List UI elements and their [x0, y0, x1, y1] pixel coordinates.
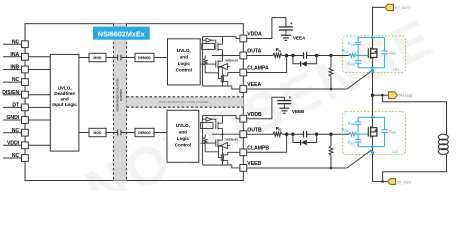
capacitor CDS A	[381, 51, 387, 54]
resistor RG B	[273, 126, 282, 137]
svg-text:UVLO,: UVLO,	[58, 86, 72, 91]
pin NC	[3, 77, 28, 85]
node gate3 A	[315, 54, 318, 57]
wire DT to input logic block	[28, 106, 50, 108]
wire MOD B to barrier cap	[106, 132, 118, 134]
wire RG to gate node A	[282, 55, 304, 57]
wire barrier cap to DEMOD A	[121, 57, 135, 59]
node HS source rail	[371, 66, 374, 69]
svg-text:MOD: MOD	[94, 131, 102, 135]
pin CLAMPB	[240, 146, 270, 156]
wire load return	[383, 153, 447, 181]
svg-text:DT: DT	[12, 103, 20, 109]
transistor NB1 pull-down	[200, 134, 222, 165]
svg-text:VEEB: VEEB	[247, 161, 261, 167]
node LS source rail	[371, 145, 374, 148]
node gate4 B	[329, 133, 332, 136]
wire VDDA rail	[203, 37, 240, 39]
wire input block to MOD B	[79, 132, 89, 134]
svg-text:OUTB: OUTB	[247, 127, 262, 133]
wire DEMOD B to UVLO B	[154, 132, 167, 134]
svg-text:BARRIER: BARRIER	[119, 89, 123, 101]
svg-text:REINFORCED ISOLATION: REINFORCED ISOLATION	[116, 78, 120, 111]
wire CLAMPB to gate node	[247, 134, 287, 152]
svg-text:Control: Control	[175, 143, 191, 148]
wire DEMOD A to UVLO A	[154, 57, 168, 59]
capacitor CGD B	[355, 122, 361, 124]
block DEMOD A	[135, 53, 154, 61]
svg-text:PHASE: PHASE	[398, 93, 412, 98]
fet model box HS	[358, 38, 385, 68]
svg-text:RG,in: RG,in	[342, 128, 350, 133]
pin NC	[3, 153, 28, 161]
transistor PA1 pull-up	[216, 37, 223, 56]
pin NC	[3, 39, 28, 47]
svg-text:GNDI: GNDI	[6, 115, 19, 121]
resistor RGin A	[342, 36, 449, 184]
node gate1 A	[285, 54, 288, 57]
resistor driver A pulldown	[203, 56, 218, 73]
wire INB to input logic block	[28, 69, 50, 71]
svg-text:VEEA+2V: VEEA+2V	[225, 59, 238, 63]
wire VEEB rail	[203, 165, 240, 168]
pin OUTB	[240, 127, 262, 137]
wire input block to MOD A	[79, 57, 89, 59]
pin VDDI	[3, 140, 28, 148]
transistor HS power MOSFET	[368, 47, 377, 60]
transistor NB2 clamp	[221, 152, 228, 165]
barrier capacitor A	[118, 55, 121, 61]
svg-text:and: and	[180, 55, 188, 60]
block U-IN UVLO Deadtime and Input Logic	[50, 54, 79, 151]
block UVLO and Logic Control A	[168, 39, 201, 85]
block MOD A	[89, 53, 106, 61]
wire gate to fet A	[331, 55, 349, 57]
block MOD B	[89, 128, 106, 136]
wire cap to node3 B	[307, 133, 331, 135]
svg-text:RG: RG	[276, 126, 282, 132]
capacitor CDS B	[381, 130, 387, 133]
buffer A1	[203, 38, 216, 43]
pin CLAMPA	[240, 66, 269, 76]
svg-text:INB: INB	[10, 65, 19, 71]
node HS source VEEA	[371, 69, 374, 72]
block UVLO and Logic Control B	[167, 110, 199, 162]
node PHASE	[371, 94, 374, 97]
node load branch	[381, 94, 384, 97]
node load return	[381, 180, 384, 183]
transistor LS power MOSFET	[368, 125, 377, 138]
svg-text:VEEB: VEEB	[292, 109, 305, 114]
terminal BT_BUS+	[385, 4, 411, 10]
svg-text:DEMOD: DEMOD	[138, 56, 151, 60]
module box HS	[342, 36, 405, 73]
inductor load	[438, 134, 448, 154]
IC body outline NSI6602MxEx	[25, 24, 243, 181]
svg-text:RG: RG	[276, 47, 282, 53]
node gate4 A	[329, 54, 332, 57]
wire VDDB rail	[203, 116, 240, 119]
buffer B2 clamp driver	[219, 143, 230, 158]
wire VEEA rail	[203, 86, 240, 89]
transistor PB1 pull-up	[216, 116, 223, 135]
module box LS	[342, 111, 405, 154]
svg-text:RG,in: RG,in	[342, 49, 350, 54]
wire barrier cap to DEMOD B	[121, 132, 135, 134]
svg-text:CLAMPA: CLAMPA	[247, 66, 269, 72]
part name NSI6602MxEx	[93, 27, 150, 40]
wire GNDI to input logic block	[28, 119, 50, 121]
svg-text:Logic: Logic	[177, 136, 190, 141]
wire driver A feed	[202, 37, 204, 86]
wire RG to gate node B	[282, 133, 304, 135]
svg-text:VDDB: VDDB	[247, 112, 262, 118]
diode turnoff B	[293, 134, 317, 145]
pin NC	[3, 128, 28, 136]
node gate2 A	[291, 54, 294, 57]
wire LS source to BT_BUS-	[373, 181, 388, 183]
node driver A out	[221, 54, 223, 56]
transistor NA2 clamp	[221, 73, 228, 87]
svg-text:VEEA: VEEA	[293, 36, 306, 41]
wire VDDI to input logic block	[28, 144, 50, 146]
svg-text:MOD: MOD	[94, 56, 102, 60]
wire OUTA internal	[212, 55, 240, 57]
resistor RG A	[273, 47, 282, 58]
wire VEEA to source	[247, 71, 372, 89]
wire CLAMPA to gate node	[247, 56, 287, 73]
wire phase to terminal	[373, 94, 389, 96]
node HS drain rail	[371, 36, 374, 39]
resistor driver B pulldown	[203, 134, 218, 152]
buffer B1	[203, 117, 216, 122]
svg-text:OUTA: OUTA	[247, 49, 261, 55]
diode turnoff A	[293, 56, 317, 67]
capacitor CA VDDA-VEEA	[279, 21, 293, 36]
svg-text:BT_BUS+: BT_BUS+	[395, 6, 410, 10]
barrier capacitor B	[118, 130, 121, 136]
wire driver B feed	[202, 116, 204, 165]
block DEMOD B	[135, 128, 154, 136]
wire HS source	[372, 60, 374, 95]
interlock channel band	[127, 97, 244, 107]
svg-text:Control: Control	[176, 68, 192, 73]
pin GNDI	[3, 115, 28, 123]
ground VEEA symbol	[281, 35, 306, 40]
wire gate inside A	[356, 55, 368, 57]
svg-text:BT_BUS-: BT_BUS-	[397, 180, 411, 184]
wire HS drain	[372, 38, 374, 47]
capacitor boost A	[304, 52, 307, 59]
node driver B out	[221, 133, 223, 135]
svg-text:UVLO,: UVLO,	[176, 123, 190, 128]
node LS drain rail	[371, 116, 374, 119]
svg-text:HS: HS	[393, 67, 399, 72]
pin VDDB	[240, 112, 262, 122]
wire INA to input logic block	[28, 56, 50, 58]
svg-text:and: and	[179, 130, 187, 135]
wire cap to node3 A	[307, 55, 331, 57]
pin INA	[3, 52, 28, 60]
svg-text:+: +	[290, 21, 293, 26]
capacitor boost B	[304, 131, 307, 138]
svg-text:INA: INA	[10, 52, 19, 58]
wire LS drain	[372, 95, 374, 125]
wire gate loop PA1	[202, 44, 215, 50]
svg-text:NC: NC	[12, 128, 20, 134]
svg-text:UVLO,: UVLO,	[177, 48, 191, 53]
svg-text:Input Logic: Input Logic	[52, 102, 77, 107]
resistor RGS A	[329, 56, 333, 91]
pin INB	[3, 65, 28, 73]
wire OUTB to RG	[247, 133, 273, 135]
transistor NA1 pull-down	[200, 56, 222, 87]
svg-text:Deadtime: Deadtime	[54, 91, 75, 96]
ground VEEB symbol	[279, 108, 305, 114]
wire drain HS to BT_BUS+	[373, 7, 385, 46]
wire gate loop PB1	[200, 123, 213, 129]
svg-text:+: +	[289, 95, 292, 100]
svg-text:CLAMPB: CLAMPB	[247, 146, 269, 152]
node LS source VEEB	[371, 151, 374, 154]
svg-text:VEEA: VEEA	[247, 82, 261, 88]
capacitor CGS A	[355, 61, 361, 63]
wire load branch	[382, 95, 446, 135]
node gate1 B	[285, 133, 288, 136]
wire LS source	[372, 139, 374, 182]
pin VEEB	[240, 161, 262, 171]
svg-text:NC: NC	[12, 39, 20, 45]
node gate3 B	[315, 133, 318, 136]
terminal BT_BUS-	[388, 179, 412, 185]
fet model box LS	[358, 117, 385, 146]
capacitive isolation barrier	[114, 24, 127, 181]
svg-text:Logic: Logic	[178, 61, 191, 66]
pin DIS/EN	[2, 90, 28, 98]
pin DT	[3, 103, 28, 111]
pin VEEA	[240, 82, 262, 92]
terminal PHASE	[389, 92, 413, 99]
wire VDDA to bootstrap cap	[247, 18, 286, 39]
wire OUTA to RG	[247, 55, 273, 57]
pin OUTA	[240, 49, 262, 59]
svg-text:NC: NC	[12, 153, 20, 159]
pin VDDA	[240, 32, 262, 42]
capacitor CB VDDB-VEEB	[277, 95, 291, 108]
wire CLAMPB internal	[228, 151, 240, 153]
capacitor CGS B	[355, 140, 361, 142]
svg-text:PWM FORWARD ISOLATION CHANNEL: PWM FORWARD ISOLATION CHANNEL	[159, 100, 210, 104]
svg-text:NC: NC	[12, 77, 20, 83]
wire VDDB to bootstrap cap	[247, 97, 285, 118]
svg-text:DEMOD: DEMOD	[138, 131, 151, 135]
wire gate to fet B	[331, 133, 349, 135]
svg-text:NSI6602MxEx: NSI6602MxEx	[98, 29, 145, 38]
svg-text:VEEB+2V: VEEB+2V	[225, 138, 238, 142]
buffer A2 clamp driver	[219, 64, 230, 79]
wire VEEB to source	[247, 150, 372, 168]
resistor RGS B	[329, 134, 333, 169]
svg-text:LS: LS	[393, 149, 398, 154]
wire gate inside B	[356, 133, 368, 135]
wire OUTB internal	[212, 133, 240, 135]
node gate2 B	[291, 133, 294, 136]
svg-text:DIS/EN: DIS/EN	[2, 90, 19, 96]
resistor RGin B	[342, 94, 449, 185]
capacitor CGD A	[355, 42, 361, 44]
wire CLAMPA internal	[228, 72, 240, 74]
wire DIS/EN to input logic block	[28, 94, 50, 96]
svg-text:and: and	[61, 97, 69, 102]
wire MOD A to barrier cap	[106, 57, 118, 59]
svg-text:VDDA: VDDA	[247, 32, 262, 38]
svg-text:VDDI: VDDI	[7, 140, 20, 146]
